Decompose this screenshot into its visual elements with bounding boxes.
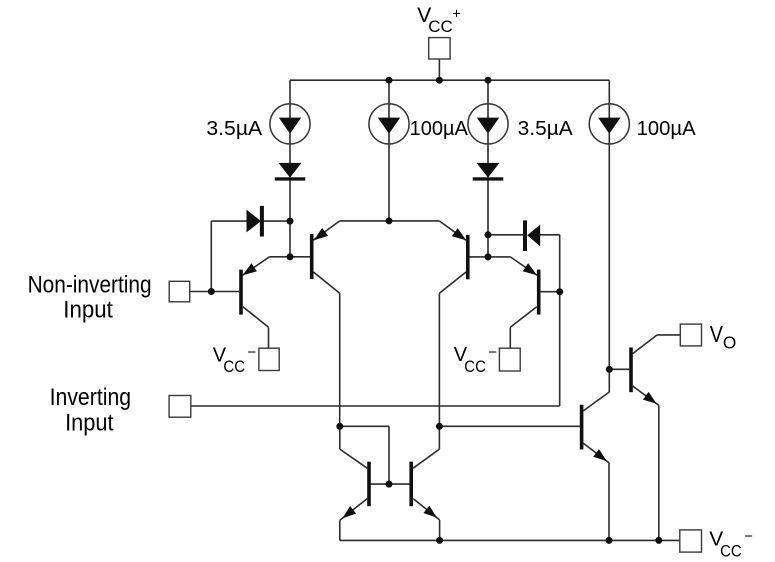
svg-text:+: +	[452, 6, 460, 22]
svg-text:V: V	[710, 321, 724, 347]
svg-text:−: −	[247, 344, 256, 361]
svg-text:O: O	[723, 333, 736, 353]
svg-text:Input: Input	[63, 297, 113, 324]
svg-text:CC: CC	[223, 358, 245, 376]
svg-text:Non-inverting: Non-inverting	[28, 271, 152, 298]
svg-text:Input: Input	[65, 410, 114, 437]
svg-text:CC: CC	[720, 542, 742, 560]
svg-text:CC: CC	[428, 17, 453, 36]
svg-text:Inverting: Inverting	[50, 384, 132, 411]
svg-text:−: −	[488, 344, 497, 361]
svg-text:CC: CC	[464, 358, 486, 376]
svg-text:3.5µA: 3.5µA	[518, 118, 574, 140]
svg-text:100µA: 100µA	[410, 118, 469, 140]
svg-text:100µA: 100µA	[637, 118, 697, 140]
svg-text:3.5µA: 3.5µA	[206, 118, 262, 140]
svg-text:−: −	[744, 528, 753, 545]
